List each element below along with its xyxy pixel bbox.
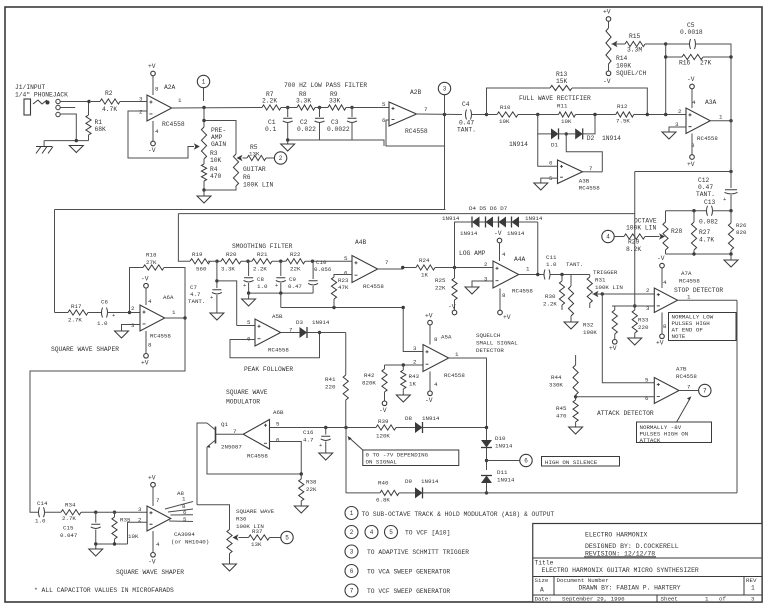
svg-text:8: 8 — [148, 342, 152, 349]
svg-text:R13: R13 — [556, 71, 568, 78]
resistor R10 10K — [487, 114, 498, 116]
svg-text:Sheet: Sheet — [661, 596, 678, 603]
node junction R1 top — [87, 100, 90, 103]
svg-text:R4: R4 — [210, 166, 218, 173]
svg-text:A6A: A6A — [163, 294, 174, 301]
resistor R9 33K — [315, 107, 328, 109]
diode D4 1N914 — [472, 217, 480, 228]
svg-text:2: 2 — [484, 261, 488, 268]
svg-text:TO VCF [A10]: TO VCF [A10] — [405, 530, 450, 537]
svg-text:C3: C3 — [331, 119, 339, 126]
resistor R21 2.2K — [241, 260, 252, 262]
node R12/R16 junction — [646, 113, 649, 116]
svg-text:D3: D3 — [296, 319, 303, 326]
svg-text:1.0: 1.0 — [546, 261, 557, 268]
svg-text:0.022: 0.022 — [297, 126, 316, 133]
wire R41 bottom — [345, 400, 347, 428]
svg-text:3: 3 — [751, 596, 755, 603]
svg-text:ATTACK: ATTACK — [640, 437, 661, 444]
resistor R2 4.7K — [91, 101, 100, 103]
svg-text:RC4558: RC4558 — [247, 453, 268, 460]
node A2B out — [443, 113, 446, 116]
svg-text:+V: +V — [141, 360, 149, 367]
wire A2A pin2 feedback — [128, 111, 194, 158]
svg-text:-V: -V — [379, 407, 387, 414]
svg-text:R33: R33 — [638, 317, 649, 324]
svg-text:STOP DETECTOR: STOP DETECTOR — [674, 287, 723, 294]
node A5A pin2 junction — [402, 363, 405, 366]
wire A2A output — [172, 107, 262, 110]
svg-text:6: 6 — [524, 458, 528, 465]
svg-text:4: 4 — [663, 279, 667, 286]
power -V R25 — [452, 310, 457, 315]
wire filter to A4B pin5 — [305, 260, 352, 262]
node C8 tap — [246, 260, 249, 263]
wire A6A pin3 ground — [122, 325, 141, 332]
svg-text:1N914: 1N914 — [525, 215, 543, 222]
wire D11 to output line — [486, 483, 488, 493]
svg-text:1: 1 — [178, 97, 182, 104]
svg-text:1: 1 — [350, 510, 354, 517]
svg-text:PEAK FOLLOWER: PEAK FOLLOWER — [244, 366, 293, 373]
wire D1 to D2 — [559, 133, 576, 135]
svg-text:7: 7 — [385, 259, 389, 266]
resistor R25 22K — [454, 268, 456, 279]
svg-text:5: 5 — [183, 516, 187, 523]
callout box normally low — [669, 313, 737, 341]
svg-text:3.3K: 3.3K — [296, 98, 311, 105]
node diode ladder left — [453, 266, 456, 269]
wire main bus B — [178, 213, 634, 215]
wire cap common bus — [288, 140, 384, 146]
node A3A out — [729, 119, 732, 122]
capacitor C8 1.0 — [248, 261, 250, 276]
power -V A6A — [145, 288, 147, 305]
svg-text:1N914: 1N914 — [422, 415, 440, 422]
ground R32 — [564, 322, 578, 329]
wire R15 to C5 — [666, 43, 690, 45]
diode D10 1N914 — [481, 440, 492, 448]
wire bias rail — [281, 307, 403, 309]
svg-text:-V: -V — [657, 255, 665, 262]
wire A5A pin2 net — [385, 364, 424, 366]
svg-text:J1/INPUT: J1/INPUT — [15, 84, 45, 91]
wire bus B to R19 — [178, 214, 190, 262]
named node circled 7 — [699, 384, 711, 396]
wire A5B pin6 feedback — [230, 333, 320, 358]
node C15 tap — [81, 511, 96, 513]
svg-text:47K: 47K — [338, 284, 349, 291]
wire output line — [346, 492, 380, 494]
svg-text:1N914: 1N914 — [312, 319, 330, 326]
svg-text:+V: +V — [503, 314, 511, 321]
svg-text:DESIGNED BY: D.COCKERELL: DESIGNED BY: D.COCKERELL — [585, 543, 679, 550]
node output line junction — [485, 491, 488, 494]
resistor R24 1K — [416, 265, 435, 270]
svg-text:R24: R24 — [419, 257, 430, 264]
svg-text:6: 6 — [183, 509, 187, 516]
power +V pullup — [612, 340, 617, 345]
resistor R4 470 — [203, 159, 205, 164]
svg-text:6: 6 — [344, 270, 348, 277]
svg-text:-V: -V — [448, 304, 456, 311]
svg-text:Title: Title — [535, 560, 554, 567]
svg-text:HIGH ON SILENCE: HIGH ON SILENCE — [545, 459, 598, 466]
wire bus A left down — [54, 210, 56, 313]
svg-text:R10: R10 — [500, 104, 511, 111]
svg-text:3.3K: 3.3K — [221, 266, 235, 273]
power -V A3A — [691, 89, 693, 108]
svg-text:ATTACK DETECTOR: ATTACK DETECTOR — [597, 410, 654, 417]
node D3 out — [318, 331, 321, 334]
svg-text:ELECTRO HARMONIX GUITAR MICRO: ELECTRO HARMONIX GUITAR MICRO SYNTHESIZE… — [542, 567, 699, 574]
resistor R17 2.7K — [55, 312, 69, 314]
svg-text:1/4" PHONEJACK: 1/4" PHONEJACK — [15, 92, 68, 99]
svg-text:D1: D1 — [551, 142, 558, 149]
wire Q1 collector — [197, 423, 207, 505]
svg-text:2.7K: 2.7K — [68, 317, 82, 324]
ground A3A — [662, 132, 676, 139]
svg-text:4.7K: 4.7K — [699, 237, 714, 244]
resistor R5 13K — [243, 157, 248, 159]
svg-text:* ALL CAPACITOR VALUES IN MICR: * ALL CAPACITOR VALUES IN MICROFARADS — [34, 587, 174, 594]
svg-text:1: 1 — [182, 496, 186, 503]
potentiometer R3 10K PRE-AMP GAIN — [201, 127, 206, 159]
wire jack ring stub — [60, 107, 75, 109]
ground (input) — [69, 146, 83, 153]
svg-text:C10: C10 — [316, 259, 327, 266]
node D2 top — [593, 113, 596, 116]
svg-text:4: 4 — [606, 234, 610, 241]
power +V A2A — [152, 76, 154, 95]
wire R35 bottom — [114, 539, 116, 544]
named node circled 3 note — [345, 545, 358, 558]
op-amp A6B — [243, 420, 269, 450]
svg-text:D4 D5 D6 D7: D4 D5 D6 D7 — [469, 205, 508, 212]
svg-text:C9: C9 — [289, 276, 296, 283]
node R41 bottom junction — [344, 426, 347, 429]
svg-text:6: 6 — [276, 437, 280, 444]
svg-text:190K: 190K — [583, 329, 597, 336]
svg-text:R27: R27 — [699, 229, 711, 236]
wire main bus A — [55, 209, 446, 211]
svg-text:R21: R21 — [257, 251, 268, 258]
svg-text:+: + — [319, 442, 322, 449]
ground R33 — [628, 338, 642, 345]
power +V A4A pin8 — [499, 289, 501, 311]
svg-text:0.056: 0.056 — [314, 266, 332, 273]
svg-text:1N914: 1N914 — [460, 230, 478, 237]
wire A3A output — [710, 120, 731, 122]
resistor R20 3.3K — [208, 260, 221, 262]
named node circled 2 — [274, 152, 286, 164]
resistor R45 470 — [573, 400, 578, 422]
svg-text:0.1: 0.1 — [265, 126, 277, 133]
resistor R1 68K — [88, 103, 90, 115]
wire R32 top — [570, 275, 572, 287]
node R15/C5 — [664, 42, 667, 45]
named node circled 6 note — [345, 565, 358, 578]
capacitor C5 0.0018 — [690, 39, 696, 49]
wire A3B pin6 branch — [538, 134, 558, 166]
svg-text:2: 2 — [139, 109, 143, 116]
wire ground bus A8 — [96, 543, 128, 545]
svg-text:TANT.: TANT. — [457, 127, 476, 134]
svg-text:8.2K: 8.2K — [626, 246, 641, 253]
svg-text:TO VCF SWEEP GENERATOR: TO VCF SWEEP GENERATOR — [367, 588, 450, 595]
node R35 tap — [113, 511, 116, 514]
power +V A3A pin8 — [691, 134, 693, 155]
svg-text:D8: D8 — [405, 415, 412, 422]
ground octave — [730, 254, 732, 260]
resistor R40 6.8K — [380, 490, 399, 495]
svg-text:R38: R38 — [306, 479, 317, 486]
svg-text:1: 1 — [719, 114, 723, 121]
resistor R35 10K — [114, 512, 116, 517]
wire D1/D2 branch — [538, 115, 551, 134]
svg-text:A4A: A4A — [514, 256, 526, 263]
node C2 — [318, 106, 321, 109]
capacitor C14 1.0 — [39, 507, 45, 517]
capacitor C11 1.0 TANT — [544, 270, 550, 280]
svg-text:3: 3 — [131, 322, 135, 329]
svg-text:RC4558: RC4558 — [579, 185, 600, 192]
svg-text:RC4558: RC4558 — [676, 373, 697, 380]
svg-text:A: A — [540, 587, 544, 594]
node C3 — [350, 106, 353, 109]
capacitor C1 0.1 — [287, 108, 289, 118]
svg-text:R22: R22 — [290, 251, 301, 258]
svg-text:Q1: Q1 — [221, 421, 228, 428]
svg-text:A7B: A7B — [676, 366, 687, 373]
svg-text:+: + — [275, 282, 278, 289]
node trigger junction — [601, 292, 604, 295]
wire squelch net down to A3A pin2 — [665, 57, 667, 115]
ground filter caps — [287, 140, 289, 144]
svg-text:2N5087: 2N5087 — [221, 444, 242, 451]
svg-text:0.082: 0.082 — [699, 219, 718, 226]
svg-text:2.2K: 2.2K — [253, 266, 267, 273]
svg-text:R18: R18 — [146, 252, 157, 259]
op-amp A3A — [686, 108, 710, 134]
svg-text:3: 3 — [139, 96, 143, 103]
svg-text:1.0: 1.0 — [97, 320, 108, 327]
named node circled 1 note — [345, 507, 358, 520]
svg-text:R17: R17 — [71, 303, 82, 310]
svg-text:120K: 120K — [376, 433, 390, 440]
potentiometer R14 100K SQUEL/CH — [608, 21, 610, 28]
wire A4B output to R24 — [378, 268, 416, 270]
svg-text:TANT.: TANT. — [566, 261, 583, 268]
svg-text:2: 2 — [131, 305, 135, 312]
power +V R14 — [606, 17, 611, 22]
callout arrow attack — [677, 399, 690, 423]
svg-text:R28: R28 — [671, 228, 683, 235]
wire A5A pin3 net — [403, 308, 423, 352]
svg-text:+V: +V — [609, 345, 617, 352]
power -V A2A — [152, 121, 154, 141]
svg-text:RC4558: RC4558 — [162, 121, 185, 128]
power -V R14 — [606, 71, 611, 76]
svg-text:A3B: A3B — [579, 178, 590, 185]
wire to A8 pin3 — [96, 511, 147, 513]
wire A6A out to C14 — [30, 318, 185, 512]
wire R31 wiper to A7A pin2 — [593, 293, 655, 295]
svg-text:22K: 22K — [435, 285, 446, 292]
svg-text:220: 220 — [325, 384, 336, 391]
svg-text:3: 3 — [646, 305, 650, 312]
wire ladder links — [479, 221, 486, 223]
svg-text:-V: -V — [148, 559, 156, 566]
svg-text:+V: +V — [148, 63, 156, 70]
resistor R13 15K — [550, 85, 572, 90]
named node circled 4 note — [365, 526, 378, 539]
wire ladder left up — [455, 222, 473, 268]
svg-text:TO ADAPTIVE SCHMITT TRIGGER: TO ADAPTIVE SCHMITT TRIGGER — [367, 549, 469, 556]
svg-text:(or NH1040): (or NH1040) — [171, 539, 209, 546]
svg-text:R20: R20 — [226, 251, 237, 258]
svg-text:-V: -V — [494, 230, 502, 237]
node ground junction R4 — [202, 188, 205, 191]
svg-text:0.47: 0.47 — [459, 120, 474, 127]
svg-text:A6B: A6B — [273, 409, 284, 416]
svg-text:13K: 13K — [249, 151, 260, 158]
svg-text:4: 4 — [370, 529, 374, 536]
svg-text:GUITAR: GUITAR — [243, 166, 266, 173]
power +V A5A — [429, 325, 431, 345]
svg-text:1.0: 1.0 — [35, 518, 46, 525]
resistor R8 3.3K — [281, 107, 297, 109]
wire A5A output down — [449, 358, 487, 440]
svg-text:R2: R2 — [105, 90, 113, 97]
svg-text:4: 4 — [148, 298, 152, 305]
svg-text:R14: R14 — [616, 55, 628, 62]
svg-text:100K LIN: 100K LIN — [626, 225, 656, 232]
svg-text:R41: R41 — [325, 376, 336, 383]
resistor R38 22K — [300, 474, 302, 479]
svg-text:-V: -V — [687, 76, 695, 83]
wire A7A pin3 — [612, 305, 654, 307]
power +V A7A pin8 — [661, 313, 663, 335]
node silence tap — [485, 459, 488, 462]
resistor R18 27K feedback — [130, 268, 144, 313]
svg-text:8: 8 — [155, 86, 159, 93]
capacitor C9 0.47 — [280, 261, 282, 276]
svg-text:SQUARE WAVE SHAPER: SQUARE WAVE SHAPER — [51, 346, 119, 353]
wire modulator net down — [345, 428, 347, 493]
svg-text:R30: R30 — [545, 293, 556, 300]
svg-text:560: 560 — [196, 266, 207, 273]
svg-text:RC4558: RC4558 — [512, 288, 533, 295]
resistor R12 7.5K — [616, 112, 634, 117]
capacitor C15 0.047 — [95, 512, 97, 522]
svg-text:10K: 10K — [210, 157, 222, 164]
svg-text:15K: 15K — [556, 78, 568, 85]
svg-text:C11: C11 — [546, 254, 557, 261]
wire octave line left leg — [634, 172, 636, 307]
svg-text:FULL WAVE RECTIFIER: FULL WAVE RECTIFIER — [519, 95, 591, 102]
diode D5 1N914 — [486, 217, 494, 228]
svg-text:7: 7 — [156, 497, 160, 504]
svg-text:7: 7 — [703, 388, 707, 395]
svg-text:DRAWN BY: FABIAN P. HARTERY: DRAWN BY: FABIAN P. HARTERY — [579, 585, 681, 592]
op-amp A7A — [654, 288, 677, 313]
svg-text:RC4558: RC4558 — [697, 135, 718, 142]
resistor R43 1K — [402, 365, 404, 370]
node D8 line crossing — [485, 426, 488, 429]
resistor R23 47K — [331, 277, 336, 299]
svg-text:D2: D2 — [587, 135, 595, 142]
svg-text:22K: 22K — [290, 266, 301, 273]
svg-text:R29: R29 — [628, 239, 640, 246]
svg-text:A7A: A7A — [681, 270, 692, 277]
svg-text:A5B: A5B — [272, 313, 283, 320]
svg-text:R36: R36 — [236, 516, 247, 523]
svg-text:+V: +V — [425, 313, 433, 320]
power +V A6A — [145, 331, 147, 354]
node R24/R25 — [401, 266, 404, 269]
svg-text:R11: R11 — [557, 103, 568, 110]
svg-text:1K: 1K — [421, 272, 428, 279]
svg-text:SQUARE WAVE: SQUARE WAVE — [236, 508, 275, 515]
svg-text:470: 470 — [556, 413, 567, 420]
svg-text:3: 3 — [443, 86, 447, 93]
node C10 tap — [311, 260, 314, 263]
svg-text:8: 8 — [434, 336, 438, 343]
diode D7 1N914 — [512, 217, 520, 228]
svg-text:ON SIGNAL: ON SIGNAL — [366, 459, 398, 466]
svg-text:1N914: 1N914 — [495, 443, 513, 450]
named node circled 7 note — [345, 584, 358, 597]
svg-text:R25: R25 — [435, 277, 446, 284]
svg-text:22K: 22K — [306, 486, 317, 493]
svg-text:27K: 27K — [700, 60, 712, 67]
svg-text:8: 8 — [502, 292, 506, 299]
svg-text:1: 1 — [172, 309, 176, 316]
svg-text:TANT.: TANT. — [696, 191, 715, 198]
svg-text:5: 5 — [382, 101, 386, 108]
resistor R30 2.2K — [561, 275, 563, 282]
ground A6A — [115, 331, 129, 338]
svg-text:SMALL SIGNAL: SMALL SIGNAL — [476, 340, 518, 347]
ground A3B — [534, 183, 548, 190]
svg-text:-V: -V — [603, 78, 611, 85]
wire A3B pin5 ground — [541, 178, 558, 183]
svg-text:1N914: 1N914 — [509, 141, 528, 148]
callout box high on silence — [542, 457, 620, 467]
wire A7A output — [678, 299, 737, 301]
svg-text:7: 7 — [424, 106, 428, 113]
wire A2B output — [417, 113, 463, 116]
wire A4A output — [519, 274, 545, 276]
diode D11 1N914 — [481, 476, 492, 484]
svg-text:C5: C5 — [687, 22, 695, 29]
node sleeve ground — [75, 139, 78, 142]
resistor R33 220 — [634, 306, 636, 310]
svg-text:of: of — [719, 596, 726, 603]
svg-text:R16: R16 — [679, 60, 691, 67]
wire R44 junction to A7B pin6 — [576, 396, 655, 398]
capacitor C12 0.47 TANT — [730, 172, 732, 189]
svg-text:C6: C6 — [101, 299, 108, 306]
ground cap rail — [242, 299, 256, 306]
svg-text:0.047: 0.047 — [60, 532, 78, 539]
wire C7 to A5B pin5 — [217, 281, 237, 326]
svg-text:A3A: A3A — [705, 99, 717, 106]
svg-text:1.0: 1.0 — [257, 283, 268, 290]
svg-text:TO VCA SWEEP GENERATOR: TO VCA SWEEP GENERATOR — [367, 569, 450, 576]
svg-text:700 HZ LOW PASS FILTER: 700 HZ LOW PASS FILTER — [284, 82, 367, 89]
